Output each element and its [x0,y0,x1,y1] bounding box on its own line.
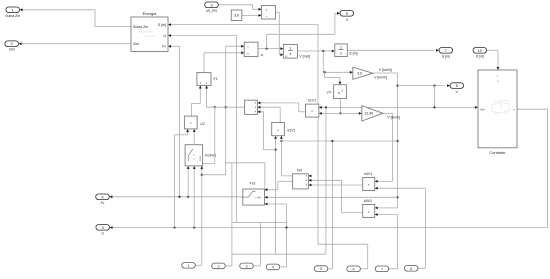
svg-text:5: 5 [346,12,348,16]
svg-text:Zmi: Zmi [9,48,15,52]
svg-text:k1V1: k1V1 [308,99,316,103]
svg-text:7: 7 [381,267,383,271]
svg-text:6: 6 [353,267,355,271]
svg-text:k4V1: k4V1 [364,172,372,176]
svg-text:Ftrl: Ftrl [297,168,302,172]
svg-text:U2: U2 [200,122,205,126]
svg-text:k5V1: k5V1 [364,199,372,203]
svg-text:D [m]: D [m] [476,55,484,59]
svg-text:Zmi: Zmi [133,42,139,46]
svg-text:1: 1 [187,264,189,268]
svg-text:Vin: Vin [480,108,485,112]
svg-text:Suma Zm: Suma Zm [133,25,148,29]
svg-text:3.6: 3.6 [357,72,362,76]
svg-text:cbnhk wtr: cbnhk wtr [144,34,156,38]
svg-text:a: a [261,53,263,57]
svg-text:8: 8 [410,267,412,271]
svg-text:a: a [346,17,348,21]
svg-text:9: 9 [210,3,212,7]
svg-text:> 40: > 40 [255,195,261,199]
svg-text:V [km/h]: V [km/h] [387,116,400,120]
svg-text:1: 1 [12,8,14,12]
svg-text:S [m]: S [m] [349,52,357,56]
svg-text:4: 4 [272,265,274,269]
svg-text:V [km/h]: V [km/h] [374,75,387,79]
svg-text:Fo/Fk1: Fo/Fk1 [205,154,216,158]
svg-text:12.96: 12.96 [364,112,373,116]
svg-text:Suma Zm: Suma Zm [5,14,20,18]
svg-text:u: u [338,91,340,95]
svg-text:Controler: Controler [489,150,506,155]
svg-text:wgzxmlodv: wgzxmlodv [139,30,154,34]
svg-text:V [km/h]: V [km/h] [379,68,392,72]
svg-text:F1: F1 [214,77,218,81]
svg-text:V [m/s]: V [m/s] [299,55,310,59]
svg-text:3: 3 [245,264,247,268]
svg-text:+: + [247,45,249,49]
svg-text:6: 6 [456,84,458,88]
svg-text:1: 1 [340,45,342,49]
svg-text:10: 10 [478,49,482,53]
svg-text:V^l: V^l [327,90,332,94]
svg-text:k2V1: k2V1 [288,129,296,133]
svg-text:2: 2 [11,42,13,46]
svg-text:s: s [340,51,342,55]
svg-text:Fv2: Fv2 [250,182,256,186]
svg-text:3: 3 [102,226,104,230]
svg-text:S [m]: S [m] [442,55,450,59]
svg-text:1: 1 [290,46,292,50]
svg-text:s: s [290,52,292,56]
svg-text:5: 5 [320,267,322,271]
svg-text:÷: ÷ [266,14,268,18]
svg-text:S [m]: S [m] [158,23,166,27]
svg-text:2: 2 [217,264,219,268]
svg-text:3.6: 3.6 [234,14,239,18]
svg-text:7: 7 [445,49,447,53]
svg-text:Fv: Fv [101,201,105,205]
svg-text:Energia: Energia [143,11,158,16]
svg-text:V0_PN: V0_PN [206,9,217,13]
svg-text:Fv: Fv [162,45,166,49]
svg-text:4: 4 [101,195,103,199]
